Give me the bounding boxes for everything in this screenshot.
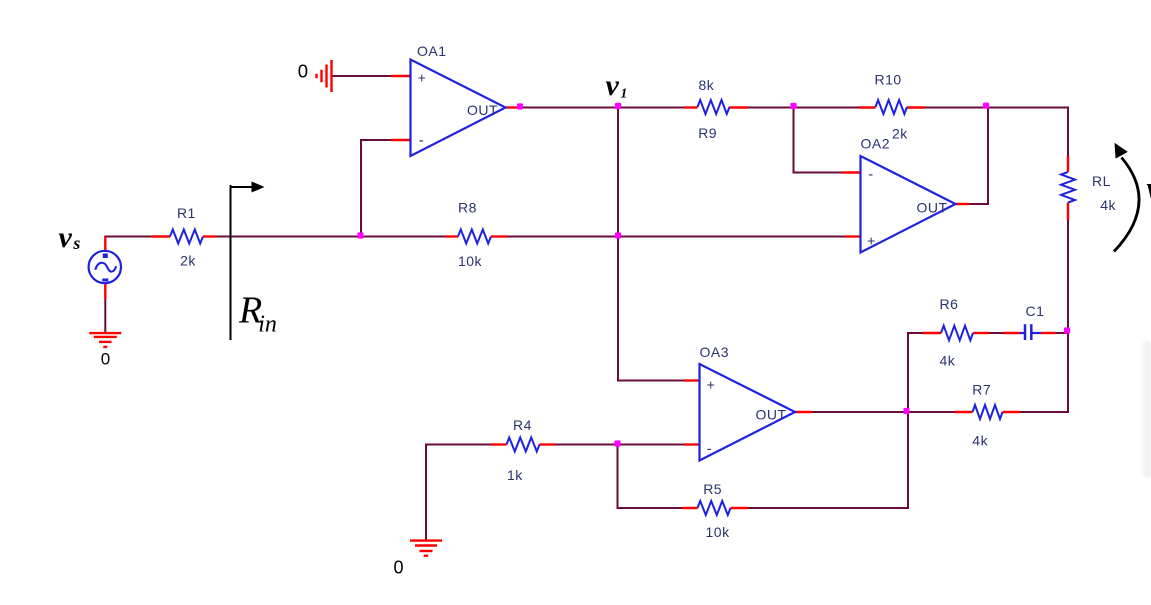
svg-text:4k: 4k — [940, 353, 956, 369]
svg-text:0: 0 — [394, 558, 405, 578]
svg-text:4k: 4k — [1100, 197, 1116, 213]
svg-text:R10: R10 — [875, 72, 902, 88]
svg-text:R1: R1 — [177, 205, 196, 221]
svg-text:+: + — [418, 70, 427, 86]
svg-text:10k: 10k — [458, 253, 483, 269]
svg-text:RL: RL — [1092, 173, 1111, 189]
svg-text:R9: R9 — [698, 125, 717, 141]
svg-text:8k: 8k — [699, 77, 715, 93]
svg-text:OA2: OA2 — [861, 136, 891, 152]
svg-text:-: - — [419, 132, 425, 149]
svg-text:1k: 1k — [507, 467, 523, 483]
svg-text:OA1: OA1 — [417, 43, 447, 59]
svg-text:OUT: OUT — [467, 102, 498, 118]
svg-text:v: v — [1147, 172, 1151, 205]
svg-text:0: 0 — [101, 350, 111, 369]
svg-text:-: - — [707, 441, 713, 458]
svg-text:OUT: OUT — [916, 200, 947, 216]
svg-text:R6: R6 — [940, 296, 959, 312]
svg-text:4k: 4k — [972, 433, 988, 449]
svg-text:+: + — [867, 233, 876, 249]
svg-text:OUT: OUT — [755, 407, 786, 423]
svg-text:0: 0 — [298, 61, 309, 82]
svg-text:R7: R7 — [972, 382, 991, 398]
svg-text:R5: R5 — [703, 481, 722, 497]
svg-text:C1: C1 — [1026, 303, 1045, 319]
svg-text:-: - — [868, 166, 874, 183]
svg-text:R4: R4 — [513, 417, 532, 433]
svg-text:10k: 10k — [706, 524, 731, 540]
svg-text:R8: R8 — [458, 200, 477, 216]
svg-text:+: + — [707, 377, 716, 393]
svg-text:2k: 2k — [180, 253, 196, 269]
svg-text:2k: 2k — [892, 126, 908, 142]
svg-text:OA3: OA3 — [700, 344, 730, 360]
